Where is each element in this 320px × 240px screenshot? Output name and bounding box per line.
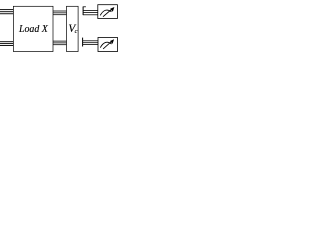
- wire: Load X to Vc, top, phase 3: [53, 14, 67, 16]
- connector stub, top: [83, 6, 86, 8]
- wire: Load X to Vc, bottom, phase 3: [53, 44, 67, 46]
- transducer box Vc: [67, 6, 79, 51]
- wire: connector to meter W1, phase 3: [83, 14, 98, 16]
- wire: 3-phase supply bus, top left, phase 2: [0, 11, 13, 13]
- meter W1 box: [98, 5, 118, 19]
- wire: connector to meter W1, phase 2: [83, 12, 98, 14]
- wire: 3-phase return bus, bottom left, phase 2: [0, 43, 13, 45]
- connector bar, top: [82, 7, 84, 16]
- svg-text:c: c: [75, 28, 78, 35]
- wire: Load X to Vc, top, phase 2: [53, 12, 67, 14]
- wire: 3-phase return bus, bottom left, phase 3: [0, 45, 13, 47]
- wire: 3-phase return bus, bottom left, phase 1: [0, 41, 13, 43]
- wire: Load X to Vc, bottom, phase 2: [53, 42, 67, 44]
- wire: 3-phase supply bus, top left, phase 3: [0, 13, 13, 15]
- meter W1 dial arc: [100, 10, 111, 15]
- connector bar, bottom: [82, 38, 84, 47]
- meter W2 needle: [103, 41, 112, 49]
- meter W1 needle: [103, 9, 112, 17]
- background: [0, 0, 120, 57]
- load box Load X: [13, 6, 53, 51]
- wire: Load X to Vc, top, phase 1: [53, 10, 67, 12]
- meter W2 needle arrowhead: [110, 39, 114, 44]
- meter W2 box: [98, 38, 118, 52]
- meter W2 dial arc: [100, 42, 111, 47]
- wire: connector to meter W2, phase 2: [83, 42, 98, 44]
- wire: connector to meter W2, phase 1: [83, 40, 98, 42]
- meter W1 needle arrowhead: [110, 7, 114, 12]
- wire: Load X to Vc, bottom, phase 1: [53, 40, 67, 42]
- svg-text:Load X: Load X: [18, 23, 49, 35]
- wire: connector to meter W2, phase 3: [83, 44, 98, 46]
- wire: connector to meter W1, phase 1: [83, 9, 98, 11]
- wire: 3-phase supply bus, top left, phase 1: [0, 9, 13, 11]
